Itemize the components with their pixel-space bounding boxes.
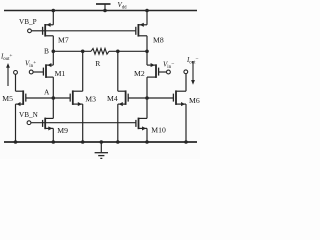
wire M8 source to rail xyxy=(146,11,148,25)
transistor M6 (NMOS) xyxy=(173,90,186,106)
junction dot rail-M8 xyxy=(145,9,149,13)
junction M2 drain / gates M4 M6 xyxy=(145,96,149,100)
svg-text:M9: M9 xyxy=(57,126,68,135)
svg-text:M4: M4 xyxy=(107,94,118,103)
output terminal Iout+ xyxy=(14,71,18,75)
wire resistor to M2 source node xyxy=(109,50,147,52)
wire ground bottom rail xyxy=(4,141,197,143)
power supply symbol bar xyxy=(96,3,111,5)
wire M8 drain down xyxy=(146,36,148,52)
svg-text:M8: M8 xyxy=(153,35,164,44)
junction M8 drain / M2 source xyxy=(145,50,149,54)
junction dot ground-M5 xyxy=(14,140,18,144)
junction dot ground-M4 xyxy=(116,140,120,144)
wire M9 source to ground xyxy=(52,128,54,142)
junction dot ground-M10 xyxy=(145,140,149,144)
wire M2 drain down xyxy=(146,77,148,118)
wire M10 source to ground xyxy=(146,128,148,142)
junction dot ground-M6 xyxy=(184,140,188,144)
junction dot rail-supply xyxy=(103,9,107,13)
junction dot rail-M7 xyxy=(52,9,56,13)
svg-text:VB_N: VB_N xyxy=(19,111,39,119)
transistor M9 (NMOS) xyxy=(43,118,54,131)
power supply symbol stem xyxy=(104,4,106,11)
wire M3 source to ground xyxy=(82,104,84,142)
transistor M10 (NMOS) xyxy=(136,118,147,131)
svg-text:M7: M7 xyxy=(58,35,69,44)
wire VDD top rail xyxy=(4,10,197,12)
wire node B to resistor xyxy=(53,50,91,52)
transistor M8 (PMOS) xyxy=(136,23,147,37)
wire Iout+ terminal to M5 drain xyxy=(15,74,17,91)
transistor M3 (NMOS) xyxy=(70,90,83,106)
wire M7 source to rail xyxy=(52,11,54,25)
wire M5 gate - node A - M3 gate xyxy=(26,97,70,99)
svg-text:M10: M10 xyxy=(151,125,166,134)
transistor M7 (PMOS) xyxy=(43,23,54,37)
svg-text:M5: M5 xyxy=(2,94,13,103)
node A junction xyxy=(52,96,56,100)
wire M6 source to ground xyxy=(185,104,187,142)
current arrow Iout+ xyxy=(7,68,9,87)
wire M7 gate to M8 gate xyxy=(43,30,136,32)
input terminal Vin- xyxy=(167,70,171,74)
junction dot ground-M9 xyxy=(52,140,56,144)
input terminal VB_P xyxy=(28,29,32,33)
svg-text:VB_P: VB_P xyxy=(19,18,37,26)
transistor M1 (PMOS) xyxy=(43,63,53,78)
wire resistor right to M4 drain xyxy=(117,51,119,91)
wire M2 gate to Vin- xyxy=(159,71,167,73)
wire resistor left to M3 drain xyxy=(82,51,84,91)
wire M4 gate to M2 drain to M6 gate xyxy=(128,97,173,99)
svg-text:M1: M1 xyxy=(55,69,66,78)
svg-text:M3: M3 xyxy=(85,94,96,103)
wire Vin+ to M1 gate xyxy=(33,71,43,73)
wire M2 source up xyxy=(146,51,148,65)
wire node A to M9 drain xyxy=(52,98,54,118)
wire VB_N to M9 and M10 gates xyxy=(31,122,136,124)
svg-text:A: A xyxy=(44,88,50,97)
wire VB_P to M7 gate xyxy=(32,30,43,32)
wire Iout- terminal to M6 drain xyxy=(185,74,187,91)
svg-text:M6: M6 xyxy=(189,96,200,105)
svg-text:M2: M2 xyxy=(134,69,145,78)
node B junction xyxy=(52,50,56,54)
junction resistor right xyxy=(116,50,120,54)
transistor M5 (NMOS mirrored) xyxy=(16,90,26,106)
wire M7 drain to node B xyxy=(52,36,54,52)
ground symbol xyxy=(95,142,108,158)
input terminal VB_N xyxy=(27,121,31,125)
output terminal Iout- xyxy=(184,70,188,74)
wire M1 drain to node A xyxy=(52,77,54,98)
junction dot ground-M3 xyxy=(81,140,85,144)
input terminal Vin+ xyxy=(29,70,33,74)
svg-text:B: B xyxy=(44,47,49,56)
transistor M2 (PMOS mirrored) xyxy=(147,63,159,78)
junction dot ground-ground symbol xyxy=(100,140,104,144)
junction resistor left xyxy=(81,50,85,54)
wire M5 source to ground xyxy=(15,104,17,142)
wire node B to M1 source xyxy=(52,51,54,65)
wire M4 source to ground xyxy=(117,104,119,142)
current arrow Iout- xyxy=(192,61,194,80)
resistor R xyxy=(91,48,109,54)
transistor M4 (NMOS mirrored) xyxy=(118,90,128,106)
